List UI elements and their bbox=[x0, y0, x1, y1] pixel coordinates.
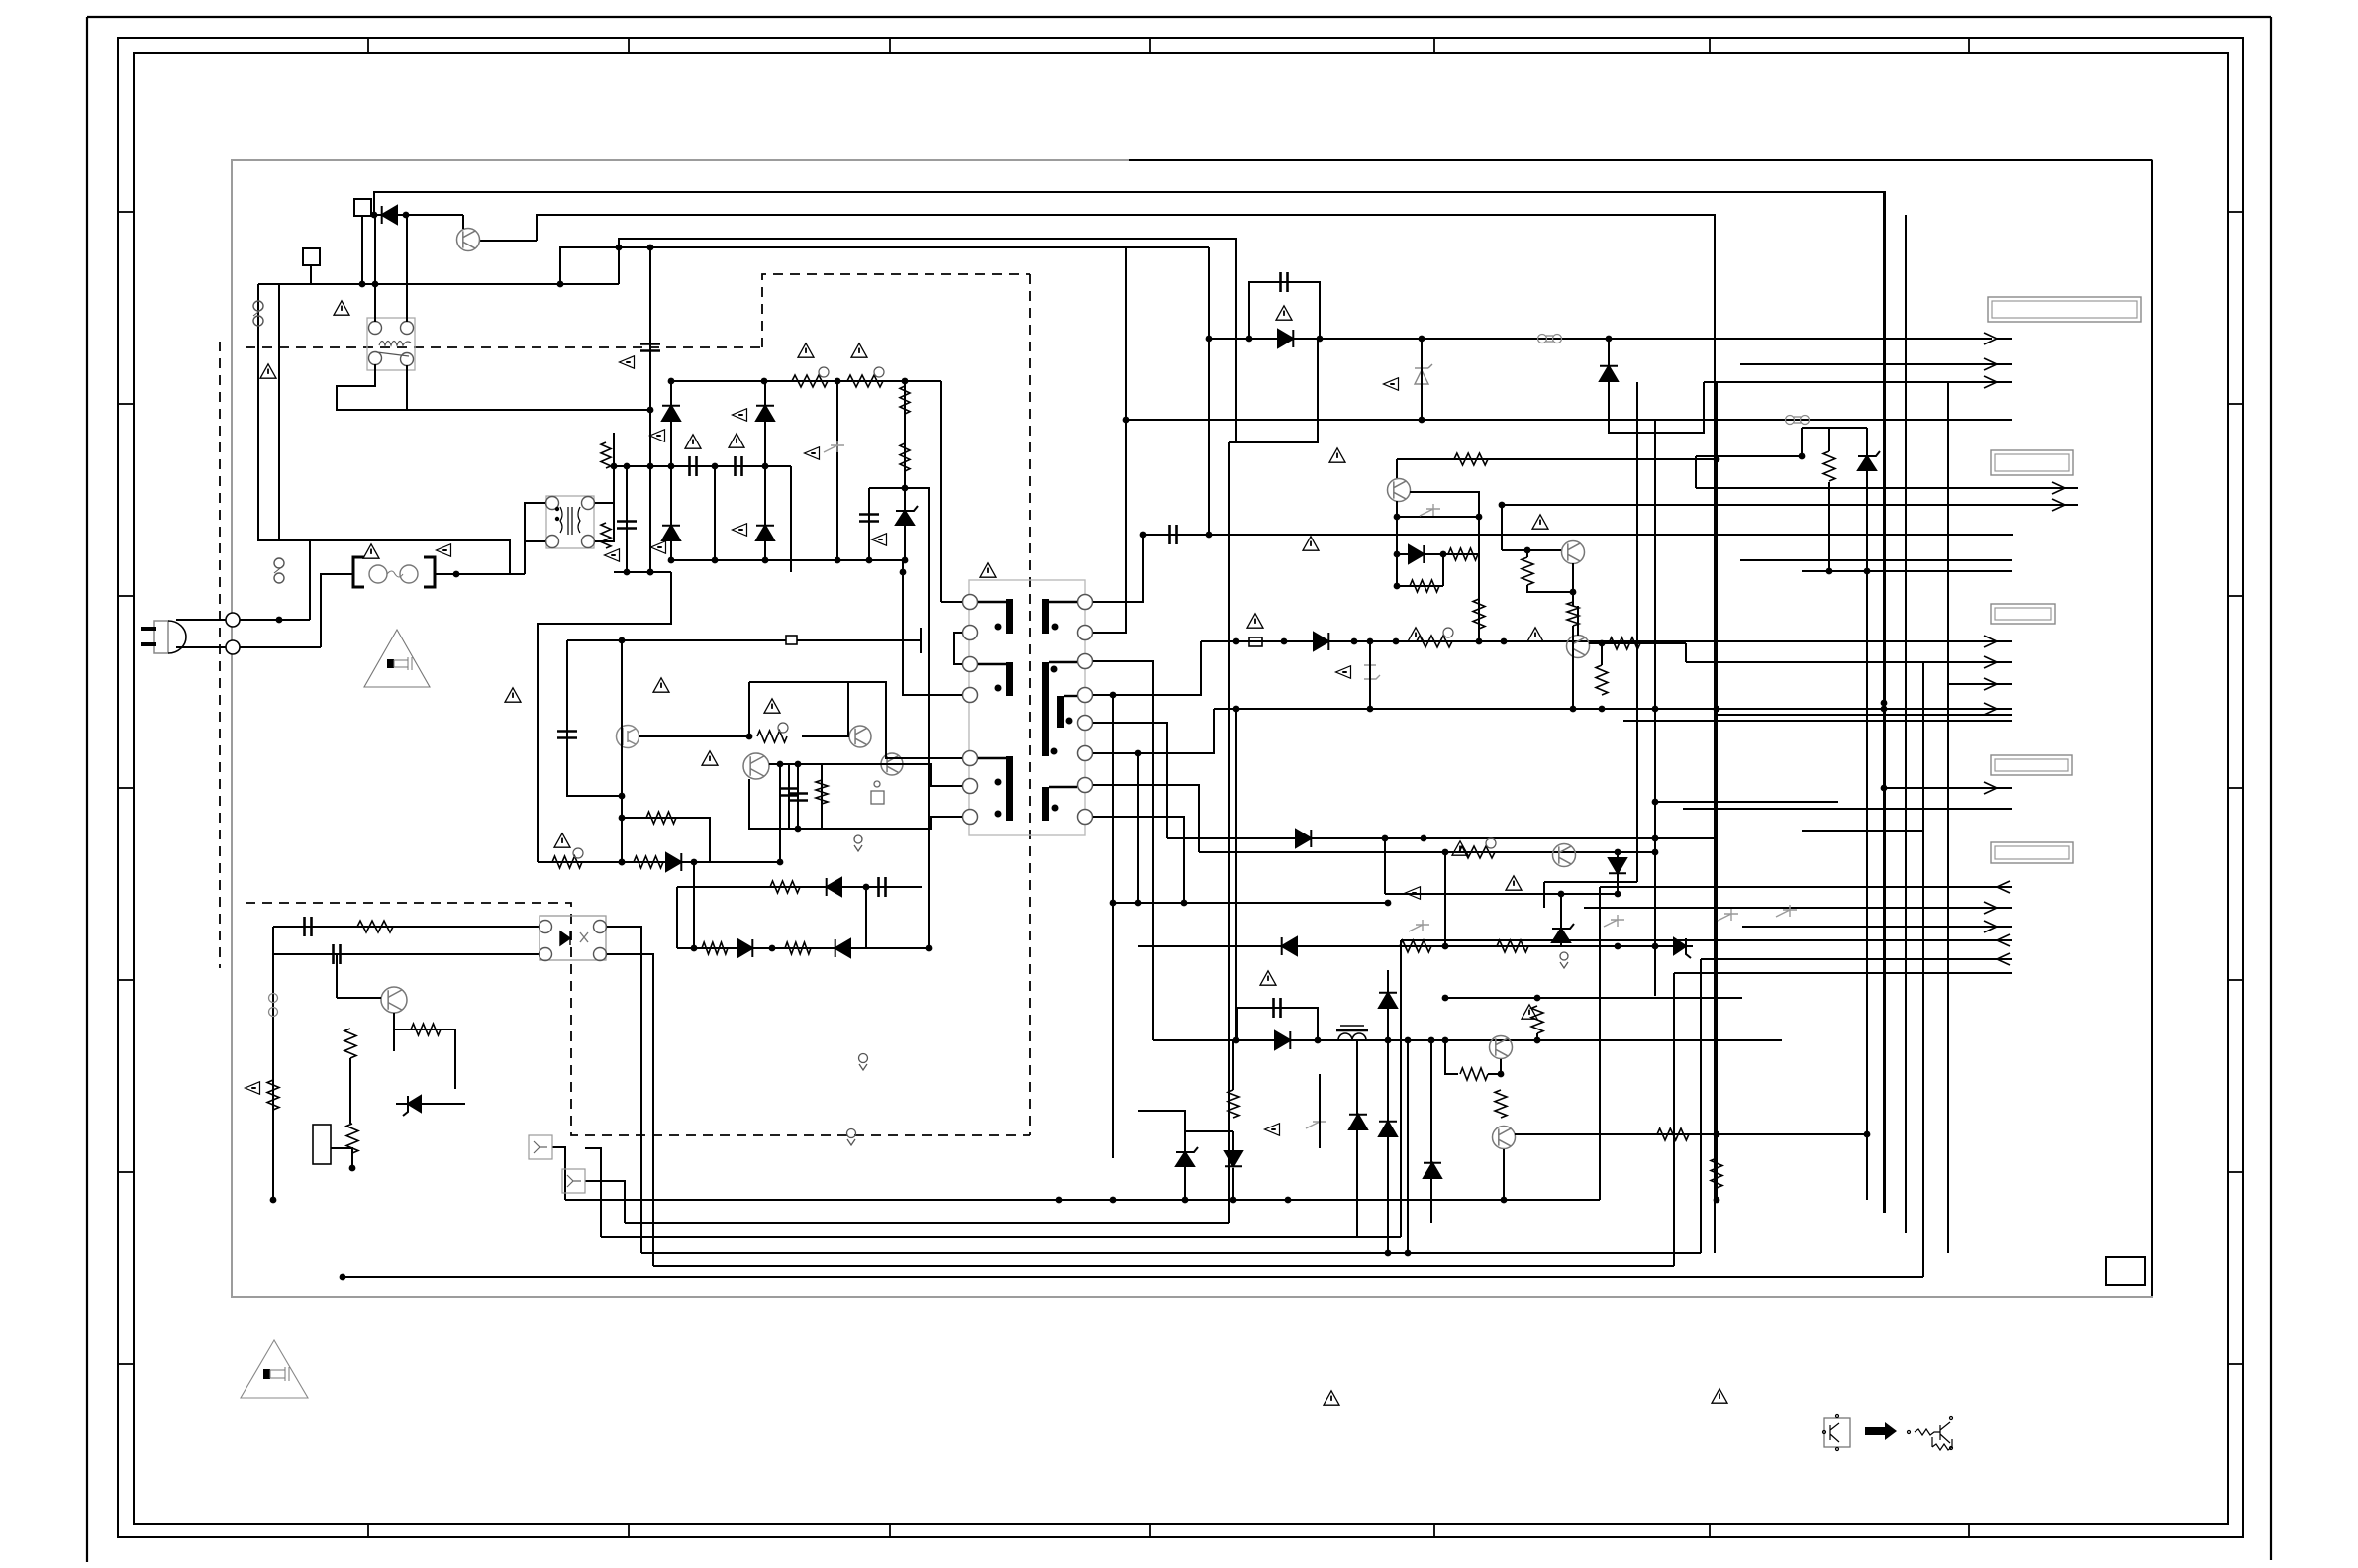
arrow out 368 bbox=[1984, 358, 1997, 370]
capacitor C14 bbox=[779, 789, 799, 796]
wire q4 right leg bbox=[1478, 492, 1480, 641]
line filter L1 body bbox=[546, 496, 594, 548]
legend transistor symbol inside bbox=[1823, 1415, 1840, 1451]
arrow in 969 bbox=[1997, 953, 2010, 965]
wire clamp loop bbox=[618, 247, 620, 284]
wire d15 leg bbox=[1430, 1040, 1432, 1223]
transistor Q8 bbox=[1490, 1036, 1513, 1059]
wire r28 top bbox=[1526, 550, 1528, 557]
warning mark W15 bbox=[1329, 448, 1345, 462]
wire row891 drop bbox=[1543, 882, 1545, 908]
panel mark A14 bbox=[872, 534, 887, 546]
diode D12 bbox=[1609, 858, 1626, 873]
transistor Q11 bbox=[881, 753, 903, 775]
wire zd7 top bbox=[1560, 894, 1562, 929]
wire out row 577 bbox=[1802, 570, 2012, 572]
resistor R5 bbox=[900, 386, 910, 414]
arrow out 648 bbox=[1984, 636, 1997, 647]
wire row 861 bbox=[1199, 851, 1655, 853]
junction dots row847 bbox=[1382, 835, 1659, 842]
resistor R32 bbox=[1497, 940, 1528, 952]
wire bus 217 bbox=[537, 215, 1715, 1253]
resistor R20 bbox=[1823, 451, 1835, 481]
wire out row 424 bbox=[1126, 419, 2012, 421]
resistor R23 bbox=[1596, 665, 1608, 695]
wire mid vertical 1249 bbox=[1235, 709, 1237, 1040]
zener ZD5 gray bbox=[1409, 920, 1429, 931]
ground symbol G1 bbox=[1560, 952, 1568, 968]
warning mark W19 bbox=[1532, 515, 1548, 529]
wire q9 down bbox=[1503, 1149, 1505, 1200]
resistor R8 fusible bbox=[552, 856, 582, 868]
diode D5 bbox=[756, 526, 774, 540]
dashed isolation barrier vertical bbox=[1029, 274, 1031, 1135]
wire pin1 riser bbox=[940, 381, 942, 602]
resistor R29 bbox=[1567, 602, 1579, 626]
wire aux row bbox=[258, 283, 619, 285]
junction sec pin6 bbox=[1135, 750, 1142, 757]
wire zd3 leg bbox=[1369, 641, 1371, 709]
zener ZD1 bbox=[1415, 364, 1432, 384]
caution triangle T2 bbox=[241, 1340, 308, 1398]
wire bus2 top link bbox=[1229, 339, 1318, 442]
capacitor C11 bbox=[334, 944, 341, 964]
wire fb left leg bbox=[272, 927, 274, 1200]
wire sec pin8 bbox=[1093, 817, 1184, 903]
wire clamp cap drop bbox=[1208, 247, 1210, 338]
warning mark W3 bbox=[363, 544, 379, 558]
digital transistor U4 bbox=[562, 1169, 585, 1193]
resistor R10 bbox=[816, 780, 828, 804]
warning mark W9 bbox=[653, 678, 669, 692]
wire q12 leg bbox=[336, 954, 338, 998]
diode D8 bbox=[1600, 366, 1618, 381]
transistor Q1 bbox=[457, 229, 480, 251]
resistor R41 bbox=[702, 942, 728, 954]
diode D4 bbox=[662, 526, 680, 540]
wire out row 917 bbox=[1584, 907, 2012, 909]
line filter L1 pins bbox=[546, 497, 595, 548]
warning mark W11 bbox=[764, 699, 780, 713]
wire mosfet source bbox=[621, 796, 623, 862]
zener ZD12 gray bbox=[1718, 909, 1738, 921]
diode D21 bbox=[737, 939, 752, 957]
wire fb drop3 bbox=[585, 1148, 601, 1237]
zener ZD7 bbox=[1552, 924, 1574, 942]
wire fb row 958 bbox=[677, 947, 929, 949]
dashed primary barrier horizontal bbox=[246, 346, 762, 348]
arrow out 493 bbox=[2052, 482, 2065, 494]
wire sec pin7 bbox=[1093, 785, 1199, 852]
wire sec pin6 down bbox=[1137, 753, 1139, 903]
wire bottom bus 2 bbox=[625, 1222, 1229, 1224]
ground symbol G3 bbox=[859, 1054, 868, 1071]
wire sec snubber top bbox=[1143, 534, 2013, 536]
wire row861 left leg bbox=[1444, 852, 1446, 946]
resistor R7 bbox=[646, 812, 676, 824]
junction dots bus1 bbox=[1056, 1197, 1720, 1204]
transformer T1 secondary winding bars bbox=[1042, 599, 1064, 821]
junction sec pin4 bbox=[1110, 692, 1117, 699]
junction dots row958 bbox=[691, 945, 933, 952]
resistor R25 bbox=[1448, 548, 1478, 560]
junction dots bus4 bbox=[1385, 1250, 1412, 1257]
warning mark W17 bbox=[1247, 614, 1263, 628]
junction ZD1 bottom bbox=[1123, 417, 1425, 424]
wire R23 top bbox=[1601, 643, 1603, 665]
wire q4 row4 bbox=[1397, 585, 1443, 587]
line filter L1 windings bbox=[560, 507, 580, 535]
wire J1 stub bbox=[361, 216, 363, 284]
connector J2 pin square bbox=[303, 248, 320, 265]
wire q8 base loop bbox=[1445, 1040, 1458, 1074]
wire zd9 top bbox=[1184, 1131, 1186, 1152]
resistor R28 bbox=[1522, 557, 1533, 585]
wire Q6 top feed bbox=[1577, 606, 1579, 624]
wire snubber cap loop bbox=[1249, 282, 1320, 338]
wire zd7 bottom bbox=[1560, 942, 1562, 946]
wire AC top riser bbox=[279, 540, 310, 620]
wire Q1 emitter bbox=[479, 240, 537, 242]
wire q8 base bbox=[1488, 1059, 1501, 1074]
diode D10 bbox=[1409, 545, 1424, 563]
wire q12 down bbox=[393, 1013, 395, 1051]
wire vertical 1734 bbox=[1716, 382, 1718, 1200]
warning mark W6 bbox=[798, 343, 814, 357]
wire primary pin5 bbox=[848, 682, 962, 758]
diode D14 bbox=[1275, 1031, 1290, 1049]
zener ZD8 right bbox=[1674, 938, 1691, 958]
resistor R37 bbox=[1711, 1158, 1722, 1188]
panel mark A9 bbox=[1336, 666, 1351, 679]
wire fb896 drop2 bbox=[865, 887, 867, 948]
wire primary pin2 loop bbox=[954, 633, 962, 664]
wire choke out top bbox=[595, 433, 614, 503]
warning mark W22 bbox=[1506, 876, 1522, 890]
diode D18 bbox=[1379, 1122, 1397, 1136]
junction source bottom bbox=[619, 859, 784, 866]
wire divider left bbox=[1801, 428, 1803, 456]
wire row847 drop bbox=[1384, 838, 1386, 894]
wire ZD1 leg bbox=[1421, 339, 1423, 420]
wire out row 493 bbox=[1696, 487, 2078, 489]
wire out row 691 bbox=[1948, 683, 2012, 685]
wire vertical 1672 bbox=[1654, 420, 1656, 852]
wire q5b to row bbox=[1572, 626, 1574, 709]
wire row 903 bbox=[1385, 893, 1618, 895]
varistor VR1 bbox=[601, 442, 611, 468]
wire out row 950 bbox=[1401, 939, 2012, 941]
jumper JP2 bbox=[1249, 637, 1262, 646]
wire AC filter top bbox=[279, 540, 510, 574]
wire primary pin7 bbox=[848, 817, 962, 829]
wire bottom bus 3 bbox=[601, 1236, 1401, 1238]
wire bridge return bbox=[538, 572, 671, 862]
wire d19 bottom bbox=[1232, 1168, 1234, 1200]
wire q5b row bbox=[1502, 549, 1562, 551]
zener ZD6 gray bbox=[1604, 915, 1624, 927]
junction dots row1051 bbox=[1233, 1037, 1541, 1044]
wire row 956 bbox=[1138, 945, 1693, 947]
zener ZD15 bbox=[896, 506, 918, 525]
wire bottom bus4 right bbox=[1700, 959, 1702, 1253]
wire aux res leg bbox=[821, 764, 823, 829]
connector CN204 bbox=[1991, 755, 2072, 775]
wire vcc left branch bbox=[566, 640, 568, 735]
wire diode row bbox=[374, 214, 463, 216]
transformer T1 primary winding bars bbox=[1006, 599, 1013, 821]
thermistor TH1 bbox=[369, 565, 418, 583]
wire aux left leg bbox=[258, 284, 279, 540]
wire q3 bottom row bbox=[749, 779, 848, 829]
wire vertical bus 1943 bbox=[1922, 662, 1924, 1277]
wire zd10 leg bbox=[1319, 1074, 1321, 1148]
wire q4 base leg bbox=[1396, 501, 1398, 586]
diode D22 bbox=[835, 939, 850, 957]
warning mark W14 bbox=[980, 563, 996, 577]
ground symbol G4 bbox=[847, 1129, 856, 1146]
wire clamp cap left bbox=[868, 488, 870, 560]
arrow out 917 bbox=[1984, 902, 1997, 914]
arrow out 936 bbox=[1984, 921, 1997, 932]
wire bridge cap leg bbox=[714, 466, 716, 560]
warning mark W4 bbox=[685, 435, 701, 448]
junction main HV bbox=[647, 245, 654, 576]
capacitor C8 bbox=[788, 794, 808, 801]
wire q4 top bbox=[1397, 458, 1717, 460]
wire sec snubber right bbox=[1208, 339, 1210, 535]
junction clamp bbox=[616, 245, 623, 251]
junction dots clamp row bbox=[1206, 336, 1613, 343]
resistor R34 bbox=[1460, 1068, 1488, 1080]
panel mark A2 bbox=[620, 356, 635, 369]
panel mark A13 bbox=[805, 447, 820, 460]
resistor R19 bbox=[344, 1029, 356, 1058]
zener ZD3 gray bbox=[1364, 665, 1380, 679]
wire AC line top bbox=[176, 619, 310, 621]
diode D7 bbox=[666, 853, 681, 871]
zener ZD2 bbox=[1858, 451, 1880, 470]
wire AC bottom riser bbox=[321, 574, 352, 647]
wire out row 896 bbox=[1600, 886, 2012, 888]
arrow out 386 bbox=[1984, 376, 1997, 388]
capacitor C7 bbox=[557, 732, 577, 738]
panel mark A11 bbox=[1265, 1124, 1280, 1136]
wire R5 drop bbox=[904, 381, 906, 560]
junction dots row716 bbox=[1233, 706, 1888, 713]
wire divider loop bbox=[1802, 427, 1867, 429]
junction fb896 bbox=[863, 884, 870, 891]
wire q9 emitter bbox=[1515, 1133, 1867, 1135]
wire r28 bottom bbox=[1527, 585, 1573, 592]
fuse F2 link bbox=[253, 301, 263, 326]
wire Q6 collector bbox=[1577, 624, 1579, 636]
resistor R3 fusible bbox=[792, 375, 828, 387]
wire choke in bottom bbox=[525, 541, 545, 574]
diode D2 bbox=[662, 406, 680, 421]
wire R20 top bbox=[1828, 428, 1830, 451]
wire q4 row2 bbox=[1397, 516, 1479, 518]
wire bridge diode leg 2 bbox=[764, 381, 766, 560]
transistor Q7 bbox=[1553, 844, 1576, 867]
junction filter out bbox=[453, 571, 460, 578]
inline connector CN4 bbox=[269, 994, 278, 1017]
transistor Q3 bbox=[743, 753, 769, 779]
wire r33 drop bbox=[1536, 1033, 1538, 1040]
wire aux drop bbox=[278, 284, 280, 540]
wire bottom bus 4 bbox=[641, 1252, 1701, 1254]
wire out row 510 bbox=[1502, 504, 2078, 506]
wire d17 leg bbox=[1387, 970, 1389, 1253]
wire out row 796 bbox=[1884, 787, 2012, 789]
junction v1422 bbox=[1405, 1037, 1412, 1044]
wire fb cluster top bbox=[273, 926, 539, 928]
panel mark A4 bbox=[733, 409, 747, 422]
resistor R31 bbox=[1400, 940, 1431, 952]
resistor R24 bbox=[1454, 453, 1488, 465]
wire row 1008 bbox=[1445, 997, 1742, 999]
wire row 810 bbox=[1655, 801, 1838, 803]
wire vcc left branch lower bbox=[567, 735, 622, 796]
wire sec pin5 bbox=[1093, 723, 1167, 838]
wire bottom bus 6 bbox=[343, 1276, 1923, 1278]
wire opto out top bbox=[607, 927, 641, 1253]
wire Q6 emitter bbox=[1589, 642, 1686, 644]
wire out row 936 bbox=[1742, 926, 2012, 928]
transistor Q5b bbox=[1562, 541, 1585, 564]
junction mosfet nodes bbox=[619, 793, 626, 866]
capacitor C12 bbox=[1170, 525, 1177, 544]
wire fb cluster mid bbox=[273, 953, 539, 955]
junction vcc row bbox=[619, 637, 626, 644]
connector CN201 bbox=[1988, 297, 2141, 322]
wire sec pin6 bbox=[1093, 709, 1214, 753]
panel mark A6 bbox=[651, 541, 666, 554]
arrow in 896 bbox=[1997, 881, 2010, 893]
wire clamp diode row bbox=[1209, 338, 1992, 340]
resistor R42 bbox=[785, 942, 811, 954]
warning mark W21 bbox=[1452, 841, 1468, 855]
wire gate feed top bbox=[749, 681, 848, 683]
varistor VR2 bbox=[601, 523, 611, 548]
junction clamp loop bbox=[902, 485, 909, 492]
wire clamp zener leg bbox=[836, 381, 838, 560]
warning mark W2 bbox=[260, 364, 276, 378]
transformer T1 winding leads bbox=[978, 602, 1077, 787]
legend equivalent circuit bbox=[1908, 1417, 1953, 1451]
resistor R30 fusible bbox=[1459, 846, 1495, 858]
wire choke out bottom bbox=[595, 466, 614, 541]
wire bus B bbox=[560, 247, 1209, 284]
wire out row 983 bbox=[1674, 972, 2012, 974]
dashed left barrier vertical bbox=[219, 342, 221, 968]
panel mark A8 bbox=[1384, 378, 1399, 391]
wire mosfet drain bbox=[621, 640, 623, 796]
wire row956 right leg bbox=[1654, 852, 1656, 996]
wire relay bottom pin 1 bbox=[337, 364, 650, 410]
junction dots q5b bbox=[1499, 502, 1531, 554]
wire Q6 base bbox=[1572, 657, 1574, 709]
wire snubber row bbox=[671, 380, 941, 382]
wire clamp out bbox=[905, 488, 929, 948]
wire v1422 leg bbox=[1407, 1040, 1409, 1253]
transistor Q12 bbox=[381, 987, 407, 1013]
wire divider feed drop bbox=[1695, 456, 1697, 488]
arrow in 950 bbox=[1997, 934, 2010, 946]
resonator X1 bbox=[871, 781, 884, 804]
junction dots row648 bbox=[1233, 638, 1508, 645]
resistor box R16 bbox=[313, 1125, 331, 1164]
panel mark A10 bbox=[1406, 887, 1421, 900]
warning mark W7 bbox=[851, 343, 867, 357]
wire zd9 bottom bbox=[1184, 1166, 1186, 1200]
wire sec cap loop bbox=[1237, 1008, 1318, 1040]
wire bus 241 bbox=[619, 239, 1236, 441]
wire relay top pin 1 bbox=[374, 215, 376, 322]
opto coupler PC1 bbox=[540, 916, 606, 960]
junction R23 top bbox=[1599, 640, 1606, 647]
junction gate bbox=[746, 734, 753, 740]
diode D1 reverse bbox=[382, 206, 397, 224]
wire primary pin1 bbox=[941, 601, 962, 603]
wire gate feed bbox=[748, 682, 750, 736]
warning mark W16 bbox=[1303, 537, 1319, 550]
wire zener row bbox=[396, 1103, 465, 1105]
zener ZD9 bbox=[1176, 1147, 1198, 1166]
wire choke in top bbox=[525, 503, 545, 574]
wire d16 leg bbox=[1356, 1040, 1358, 1237]
warning mark W12 bbox=[554, 833, 570, 847]
capacitor C13 bbox=[1274, 998, 1281, 1018]
wire bridge right leg bbox=[790, 466, 792, 572]
wire main HV node bbox=[649, 247, 651, 572]
wire bridge mid rail bbox=[671, 559, 905, 561]
inline connector CN2 bbox=[1538, 335, 1562, 343]
wire d19 top bbox=[1232, 1131, 1234, 1152]
panel mark A7 bbox=[733, 524, 747, 537]
wire ZD2 top bbox=[1866, 428, 1868, 456]
relay RL1 contact bbox=[377, 352, 409, 356]
wire d12 leg bbox=[1617, 852, 1619, 894]
junction r16 bbox=[349, 1165, 356, 1172]
AC entry node circles bbox=[226, 613, 240, 654]
wire vertical bus 1903 bbox=[1883, 192, 1885, 1213]
arrow out 342 bbox=[1984, 333, 1997, 344]
wire q4 collector bbox=[1396, 459, 1398, 479]
panel mark A5 bbox=[605, 549, 620, 562]
connector J1 pin square bbox=[354, 199, 371, 216]
wire out row 722 bbox=[1717, 714, 2012, 716]
wire bottom bus 5 bbox=[653, 1265, 1674, 1267]
diode D9 bbox=[1314, 633, 1328, 650]
junction dots bridge top bbox=[611, 463, 769, 470]
junction dots sec top bbox=[1140, 532, 1213, 539]
panel mark A3 bbox=[650, 430, 665, 442]
resistor R38 bbox=[1228, 1090, 1239, 1118]
wire sec pin4 bbox=[1093, 641, 1201, 695]
wire row 1051 bbox=[1153, 1039, 1782, 1041]
junction dots sec ground bbox=[1110, 900, 1392, 907]
wire vertical bus 2174 overlay bbox=[2151, 160, 2153, 1296]
arrow out 510 bbox=[2052, 499, 2065, 511]
diode D11 bbox=[1296, 830, 1311, 847]
junction dots bridge mid bbox=[668, 557, 909, 564]
wire cap drop bbox=[797, 764, 799, 829]
wire sec pin2 riser bbox=[1093, 247, 1126, 633]
zener ZD13 gray bbox=[1776, 905, 1797, 917]
connector CN202 bbox=[1991, 450, 2073, 475]
arrow out 669 bbox=[1984, 656, 1997, 668]
